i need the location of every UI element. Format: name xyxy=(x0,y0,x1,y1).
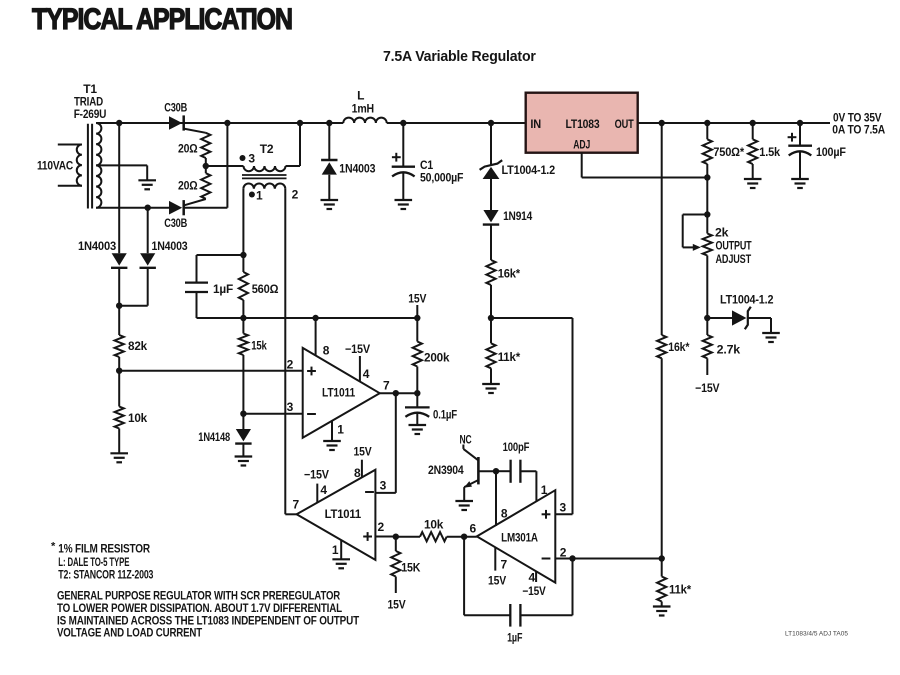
svg-text:VOLTAGE AND LOAD CURRENT: VOLTAGE AND LOAD CURRENT xyxy=(57,626,203,640)
svg-text:15V: 15V xyxy=(388,598,406,612)
svg-text:100µF: 100µF xyxy=(816,145,846,159)
svg-text:LT1004-1.2: LT1004-1.2 xyxy=(502,163,556,177)
svg-text:2: 2 xyxy=(292,188,299,202)
svg-text:560Ω: 560Ω xyxy=(252,282,279,296)
svg-text:LT1083: LT1083 xyxy=(566,117,600,131)
svg-text:LT1011: LT1011 xyxy=(322,386,355,400)
svg-text:0A TO 7.5A: 0A TO 7.5A xyxy=(832,123,885,137)
svg-text:15k: 15k xyxy=(251,339,267,353)
svg-text:1N914: 1N914 xyxy=(503,209,532,223)
svg-text:750Ω*: 750Ω* xyxy=(713,145,744,159)
svg-text:3: 3 xyxy=(560,501,567,515)
svg-text:4: 4 xyxy=(363,367,370,381)
svg-text:2: 2 xyxy=(287,358,294,372)
svg-text:2: 2 xyxy=(560,546,567,560)
svg-text:200k: 200k xyxy=(424,351,450,365)
svg-text:0.1µF: 0.1µF xyxy=(433,408,457,422)
svg-text:1N4148: 1N4148 xyxy=(198,430,230,444)
svg-text:OUTPUT: OUTPUT xyxy=(716,239,753,253)
svg-text:1µF: 1µF xyxy=(213,282,233,296)
svg-text:7: 7 xyxy=(383,379,390,393)
svg-text:T2: STANCOR 11Z-2003: T2: STANCOR 11Z-2003 xyxy=(58,568,153,582)
svg-text:15K: 15K xyxy=(401,561,420,575)
svg-text:1: 1 xyxy=(332,543,339,557)
svg-text:−15V: −15V xyxy=(345,342,370,356)
svg-text:4: 4 xyxy=(529,571,536,585)
svg-text:C30B: C30B xyxy=(164,101,187,115)
svg-text:−15V: −15V xyxy=(695,381,719,395)
svg-text:1N4003: 1N4003 xyxy=(152,239,188,253)
svg-text:100pF: 100pF xyxy=(503,440,530,454)
svg-text:LT1011: LT1011 xyxy=(325,507,362,521)
svg-text:IN: IN xyxy=(530,117,541,131)
svg-text:1% FILM RESISTOR: 1% FILM RESISTOR xyxy=(58,542,150,556)
svg-text:15V: 15V xyxy=(488,574,506,588)
svg-text:2.7k: 2.7k xyxy=(717,343,741,357)
svg-text:16k*: 16k* xyxy=(498,267,521,281)
svg-text:1: 1 xyxy=(541,483,548,497)
svg-text:NC: NC xyxy=(460,433,472,447)
svg-text:10k: 10k xyxy=(128,411,148,425)
svg-text:1µF: 1µF xyxy=(507,631,522,645)
svg-text:LT1004-1.2: LT1004-1.2 xyxy=(720,293,774,307)
svg-text:15V: 15V xyxy=(354,445,372,459)
svg-text:7: 7 xyxy=(501,558,508,572)
svg-text:7: 7 xyxy=(293,497,300,511)
svg-text:ADJUST: ADJUST xyxy=(716,252,752,266)
svg-text:6: 6 xyxy=(469,522,476,536)
svg-text:15V: 15V xyxy=(408,292,426,306)
svg-text:82k: 82k xyxy=(128,339,148,353)
svg-text:11k*: 11k* xyxy=(669,583,691,597)
svg-text:8: 8 xyxy=(501,507,508,521)
svg-text:C30B: C30B xyxy=(164,216,187,230)
svg-text:−15V: −15V xyxy=(522,584,545,598)
svg-text:10k: 10k xyxy=(424,518,444,532)
svg-text:110VAC: 110VAC xyxy=(37,159,73,173)
svg-text:L: L xyxy=(357,89,364,103)
svg-text:LM301A: LM301A xyxy=(501,531,538,545)
svg-text:16k*: 16k* xyxy=(668,340,689,354)
svg-text:8: 8 xyxy=(323,344,330,358)
svg-text:1N4003: 1N4003 xyxy=(339,162,375,176)
svg-text:8: 8 xyxy=(354,466,361,480)
svg-text:OUT: OUT xyxy=(615,117,635,131)
svg-text:3: 3 xyxy=(380,479,387,493)
svg-text:20Ω: 20Ω xyxy=(178,179,198,193)
svg-text:20Ω: 20Ω xyxy=(178,142,198,156)
svg-text:2N3904: 2N3904 xyxy=(428,463,464,477)
svg-text:1: 1 xyxy=(337,423,344,437)
svg-text:2: 2 xyxy=(378,520,385,534)
svg-text:−15V: −15V xyxy=(304,467,329,481)
svg-text:ADJ: ADJ xyxy=(573,138,590,152)
svg-text:T2: T2 xyxy=(260,142,274,156)
svg-text:*: * xyxy=(51,541,56,553)
svg-text:3: 3 xyxy=(248,152,255,166)
svg-text:4: 4 xyxy=(320,483,327,497)
svg-text:LT1083/4/5 ADJ TA05: LT1083/4/5 ADJ TA05 xyxy=(785,631,848,638)
svg-text:1: 1 xyxy=(256,189,263,203)
svg-text:11k*: 11k* xyxy=(498,350,521,364)
svg-text:2k: 2k xyxy=(715,226,729,240)
svg-text:1.5k: 1.5k xyxy=(759,145,780,159)
svg-text:1mH: 1mH xyxy=(352,102,374,116)
svg-text:F-269U: F-269U xyxy=(74,107,107,121)
svg-text:1N4003: 1N4003 xyxy=(78,239,116,253)
svg-text:50,000µF: 50,000µF xyxy=(420,171,463,185)
svg-text:3: 3 xyxy=(287,400,294,414)
